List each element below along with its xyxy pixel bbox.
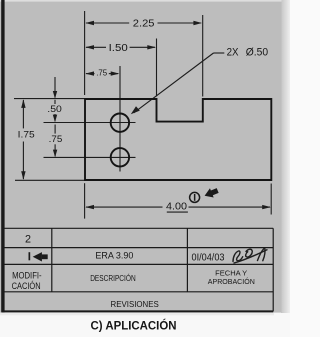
revision table grid: [2, 228, 273, 311]
arrowhead leader to hole: [131, 106, 140, 114]
arrowhead chain .50 bottom down: [53, 115, 57, 123]
extension line part-left below: [84, 183, 86, 218]
centerline hole2 horizontal: [44, 156, 136, 158]
centerline holes vertical: [119, 66, 121, 172]
left page border: [1, 0, 4, 312]
arrowhead 4.00 left: [85, 205, 94, 209]
arrowhead 4.00 right: [262, 205, 271, 209]
arrowhead .75 right: [111, 71, 120, 75]
arrowhead chain .75 bottom down: [53, 150, 57, 158]
right margin strip: [281, 0, 290, 313]
svg-text:.75: .75: [49, 134, 63, 144]
arrowhead 1.50 right: [147, 45, 156, 49]
svg-text:DESCRIPCIÓN: DESCRIPCIÓN: [90, 273, 136, 283]
svg-text:2X: 2X: [227, 46, 239, 58]
dimension line 1.50: [86, 46, 106, 48]
arrowhead 1.75 up: [21, 99, 25, 108]
svg-text:2.25: 2.25: [133, 19, 155, 30]
extension line bottom-left horizontal: [15, 179, 85, 181]
chain line .50 upper shaft: [54, 77, 56, 98]
soft shadow band under table: [0, 313, 274, 316]
leader line 2X holes horizontal: [214, 52, 225, 54]
table row line 2: [2, 263, 273, 265]
svg-text:I.50: I.50: [109, 43, 129, 54]
arrowhead 2.25 left: [85, 21, 94, 25]
extension line notch-left above: [156, 39, 158, 97]
table column line 2: [186, 228, 188, 291]
dimension line .75 top: [86, 73, 95, 75]
arrowhead 1.50 left: [85, 45, 94, 49]
table bottom line: [2, 310, 273, 312]
balloon circled 1: [190, 192, 200, 202]
chain line .75 lower shaft: [54, 144, 56, 156]
extension line notch-right above: [202, 15, 204, 97]
table top line: [2, 227, 273, 229]
extension line part-left above: [84, 11, 86, 95]
part outline: [85, 99, 271, 180]
underline 4.00: [167, 211, 188, 213]
arrowhead 1.75 down: [21, 171, 25, 180]
svg-text:.50: .50: [47, 103, 62, 114]
svg-text:Ø.50: Ø.50: [246, 46, 268, 58]
svg-text:0I/04/03: 0I/04/03: [192, 253, 226, 264]
extension line top-left horizontal: [14, 98, 85, 100]
extension line part-right below: [270, 184, 272, 215]
chain line .50 lower shaft: [54, 114, 56, 121]
top light scan strip: [0, 0, 282, 2]
svg-text:2: 2: [25, 233, 31, 245]
arrowhead chain .50 top down: [53, 91, 57, 99]
table text 1 (bar): [29, 252, 31, 260]
svg-text:ERA 3.90: ERA 3.90: [95, 250, 133, 260]
svg-text:APROBACIÓN: APROBACIÓN: [208, 277, 255, 286]
centerline hole1 horizontal: [44, 122, 136, 124]
dimension line 4.00: [86, 206, 163, 208]
leader line 2X holes diagonal: [134, 53, 214, 113]
svg-text:C) APLICACIÓN: C) APLICACIÓN: [91, 319, 177, 332]
table column line 1: [51, 228, 53, 291]
table right edge: [272, 228, 274, 311]
table row line 3: [2, 291, 273, 293]
svg-text:REVISIONES: REVISIONES: [111, 300, 159, 309]
table row line 1: [2, 247, 273, 249]
svg-text:4.00: 4.00: [166, 201, 187, 212]
chain line segment below top edge: [54, 100, 56, 104]
signature scribble: [233, 249, 267, 264]
dimension line 2.25: [86, 22, 129, 24]
hole 2: [111, 148, 129, 166]
table flag arrow row 1: [33, 252, 48, 261]
svg-text:MODIFI-: MODIFI-: [12, 270, 42, 280]
hole 1: [111, 114, 129, 132]
svg-text:.75: .75: [96, 68, 107, 78]
svg-text:I.75: I.75: [18, 129, 35, 139]
svg-text:CACIÓN: CACIÓN: [12, 281, 41, 291]
dimension line 1.75 vertical: [22, 100, 24, 128]
revision flag arrow at 4.00: [203, 186, 220, 201]
arrowhead 2.25 right: [193, 21, 202, 25]
arrowhead .75 left: [85, 71, 94, 75]
chain line segment below hole1 centerline: [54, 125, 56, 134]
